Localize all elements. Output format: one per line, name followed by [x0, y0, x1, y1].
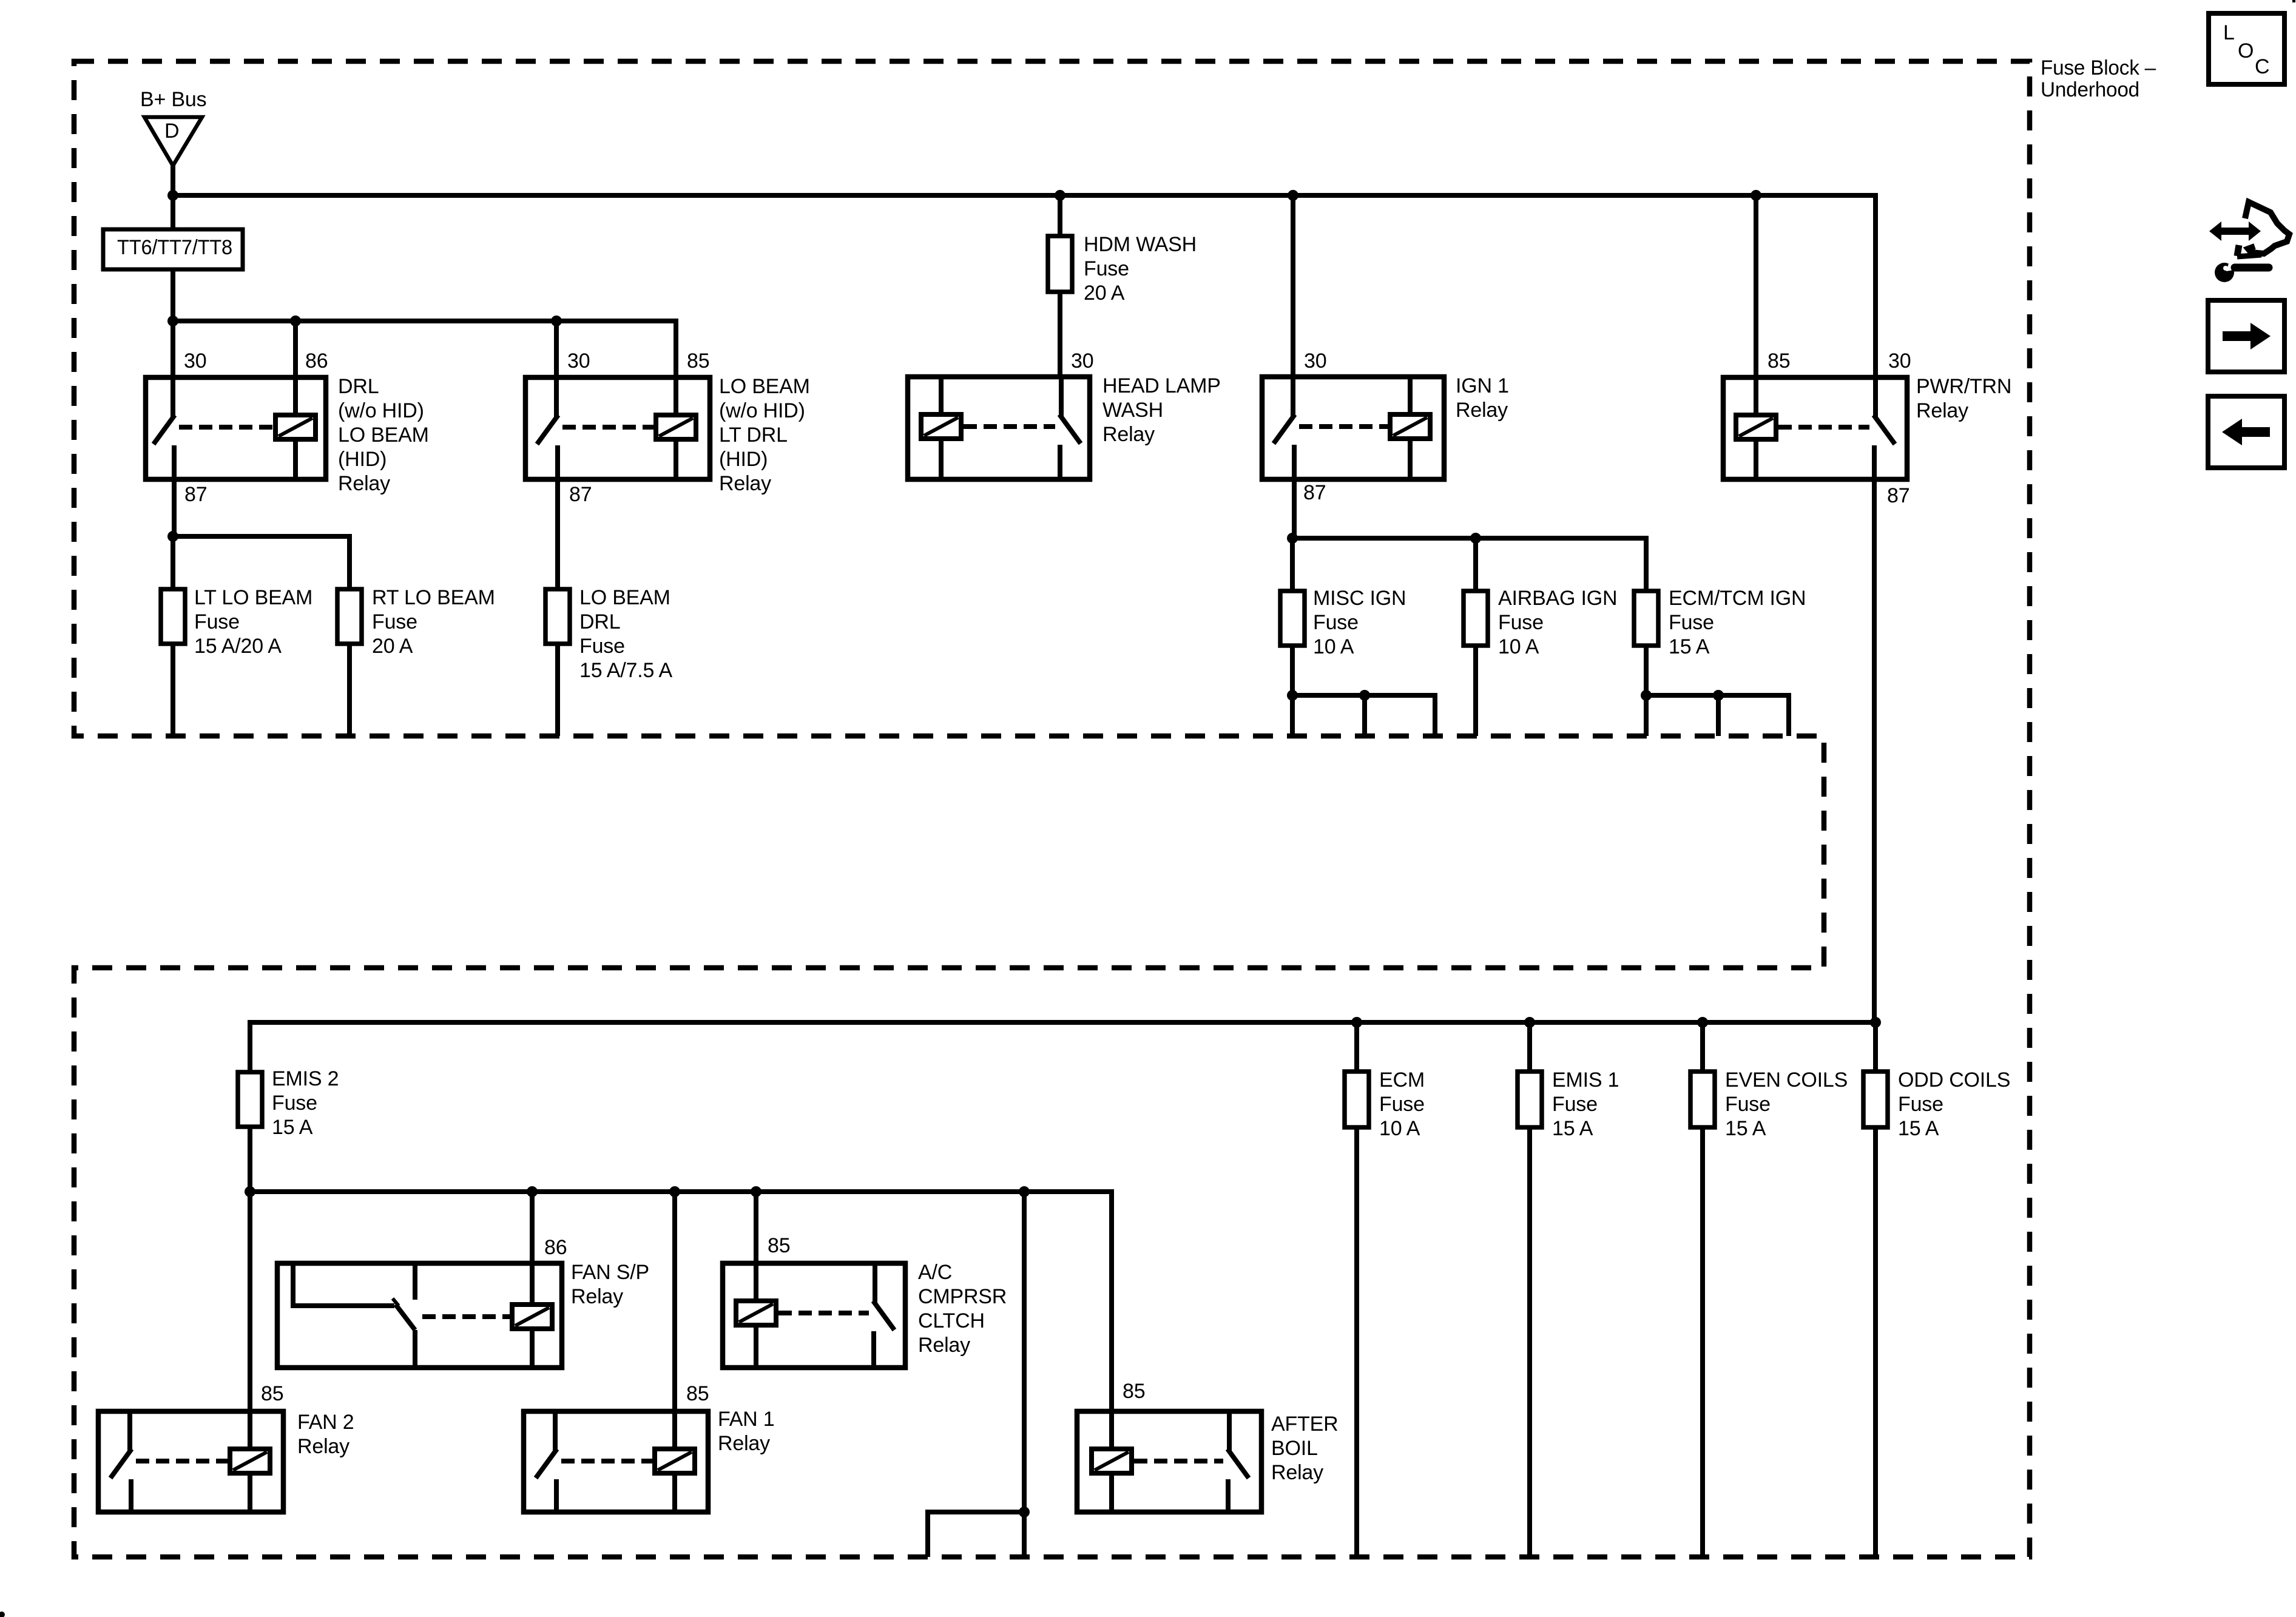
svg-text:DRL: DRL — [579, 610, 620, 633]
svg-text:EMIS 2: EMIS 2 — [272, 1067, 339, 1090]
node junction DRL 86 — [290, 316, 301, 326]
wire MISC IGN drop — [1290, 538, 1295, 591]
fuse ECM — [1345, 1072, 1369, 1127]
relay FAN 1 — [524, 1411, 708, 1512]
wire B+ to bus — [171, 164, 175, 195]
wire lower feed bus — [250, 1022, 1876, 1072]
node junction MISC IGN — [1287, 533, 1298, 544]
svg-text:LO BEAM: LO BEAM — [719, 375, 810, 398]
wire EVEN COILS drop — [1700, 1022, 1705, 1072]
svg-text:Fuse: Fuse — [272, 1092, 317, 1115]
node junction EMIS2/FAN2 — [245, 1186, 255, 1197]
fuse LT LO BEAM — [161, 589, 185, 644]
svg-text:Fuse: Fuse — [579, 635, 625, 658]
wire EMIS2 to relay bus — [248, 1127, 252, 1192]
svg-text:15 A/20 A: 15 A/20 A — [194, 635, 282, 658]
wire ECM/TCM exit stub a — [1644, 695, 1649, 736]
wire IGN1 pin87 down — [1292, 479, 1297, 538]
svg-text:Relay: Relay — [719, 472, 771, 495]
node junction LO BEAM 30 — [551, 316, 562, 326]
svg-text:Relay: Relay — [1456, 399, 1508, 422]
wire exit stub right — [1022, 1512, 1027, 1557]
node junction exit drop — [1019, 1186, 1030, 1197]
svg-text:15 A: 15 A — [1898, 1117, 1939, 1140]
svg-text:Relay: Relay — [338, 472, 390, 495]
svg-text:AFTER: AFTER — [1271, 1413, 1338, 1436]
svg-text:RT LO BEAM: RT LO BEAM — [372, 586, 495, 609]
wire FAN S/P actuator dashes — [422, 1314, 510, 1319]
svg-text:85: 85 — [686, 1382, 709, 1405]
svg-text:AIRBAG IGN: AIRBAG IGN — [1498, 587, 1617, 610]
svg-text:15 A: 15 A — [272, 1116, 313, 1139]
svg-text:87: 87 — [184, 483, 207, 506]
icon wrench — [2215, 263, 2234, 282]
svg-text:85: 85 — [768, 1234, 790, 1257]
node junction AIRBAG IGN — [1470, 533, 1481, 544]
svg-text:FAN 2: FAN 2 — [297, 1411, 354, 1434]
wire ECM drop — [1354, 1022, 1359, 1072]
wire ignition fuse bus — [1292, 538, 1646, 591]
svg-text:CLTCH: CLTCH — [918, 1309, 985, 1332]
wire FAN S/P blade — [396, 1305, 415, 1330]
wire FAN S/P bottom contact — [413, 1330, 417, 1368]
relay HEAD LAMP WASH — [908, 377, 1090, 479]
wire EVEN COILS exit — [1700, 1127, 1705, 1557]
fuse LO BEAM DRL — [545, 589, 570, 644]
svg-text:85: 85 — [687, 349, 709, 373]
svg-text:A/C: A/C — [918, 1261, 952, 1284]
icon harness outline — [2245, 202, 2289, 254]
wire HDM fuse to relay — [1058, 292, 1062, 377]
wire drop to TT box — [171, 195, 175, 231]
svg-text:LO BEAM: LO BEAM — [338, 424, 429, 447]
fuse RT LO BEAM — [337, 589, 362, 644]
wire PWR/TRN pin85 — [1754, 195, 1758, 377]
svg-text:Relay: Relay — [571, 1285, 623, 1308]
wire FAN S/P 87a L — [293, 1263, 394, 1306]
node junction PWR/TRN 85 — [1751, 190, 1761, 201]
svg-text:15 A: 15 A — [1725, 1117, 1766, 1140]
svg-text:DRL: DRL — [338, 375, 379, 398]
node B+ Bus triangle D — [144, 117, 202, 166]
wire FAN S/P top contact — [413, 1263, 417, 1300]
wire exit split horizontal — [928, 1512, 1024, 1557]
wire MISC IGN fuse lower — [1290, 646, 1295, 695]
wire relay bus lower — [250, 1192, 1112, 1411]
svg-text:30: 30 — [1304, 349, 1326, 373]
svg-text:87: 87 — [1887, 484, 1909, 507]
artifact dot bottom left — [0, 1612, 5, 1617]
node junction A/C 85 — [751, 1186, 761, 1197]
svg-text:Relay: Relay — [1271, 1461, 1323, 1484]
svg-text:O: O — [2238, 39, 2254, 62]
svg-text:15 A/7.5 A: 15 A/7.5 A — [579, 659, 673, 682]
svg-text:30: 30 — [1888, 349, 1911, 373]
relay A/C CMPRSR CLTCH — [723, 1263, 905, 1368]
relay FAN 2 — [98, 1411, 283, 1512]
svg-text:30: 30 — [567, 349, 590, 373]
svg-text:Fuse: Fuse — [1669, 611, 1714, 634]
svg-text:10 A: 10 A — [1313, 635, 1354, 658]
wire EMIS1 exit — [1527, 1127, 1532, 1557]
svg-text:15 A: 15 A — [1669, 635, 1710, 658]
wire branch to RT fuse — [173, 536, 349, 589]
wire DRL pin86 — [293, 321, 298, 377]
svg-text:ECM: ECM — [1379, 1068, 1425, 1092]
node junction sub-bus left — [167, 316, 178, 326]
svg-text:LO BEAM: LO BEAM — [579, 586, 670, 609]
fuse EVEN COILS — [1690, 1072, 1715, 1127]
svg-text:Underhood: Underhood — [2041, 78, 2139, 101]
wire LO BEAM pin30 — [554, 321, 559, 377]
wire AIRBAG IGN drop — [1473, 538, 1478, 591]
wire ECM exit — [1354, 1127, 1359, 1557]
wire LT fuse exit — [171, 644, 175, 736]
svg-text:Fuse: Fuse — [1379, 1093, 1425, 1116]
wire exit drop vertical — [1022, 1192, 1027, 1512]
svg-text:Fuse: Fuse — [372, 610, 417, 633]
node junction ECM/TCM exit 1 — [1641, 690, 1652, 701]
svg-text:87: 87 — [1303, 481, 1326, 504]
wire ODD COILS drop — [1873, 1022, 1878, 1072]
node junction MISC exit 1 — [1287, 690, 1298, 701]
relay DRL — [146, 377, 326, 479]
wire to LT fuse — [171, 536, 175, 589]
wire main top bus — [173, 195, 1876, 377]
wire DRL pin30 — [171, 321, 175, 377]
svg-text:Fuse: Fuse — [1898, 1093, 1943, 1116]
svg-text:86: 86 — [544, 1236, 567, 1259]
relay FAN S/P — [277, 1263, 562, 1368]
svg-text:ECM/TCM IGN: ECM/TCM IGN — [1669, 587, 1806, 610]
icon arrow back box — [2208, 396, 2284, 468]
wire FAN2 pin85 — [248, 1192, 252, 1411]
svg-text:D: D — [164, 120, 179, 143]
coil FAN S/P — [530, 1263, 535, 1305]
node junction EVEN COILS fuse — [1697, 1017, 1708, 1028]
wire MISC exit stub b — [1362, 695, 1367, 736]
svg-text:HDM WASH: HDM WASH — [1084, 233, 1197, 256]
svg-text:FAN 1: FAN 1 — [718, 1408, 774, 1431]
wire DRL pin87 down — [172, 479, 177, 536]
svg-text:Relay: Relay — [918, 1334, 970, 1357]
svg-text:Fuse: Fuse — [1498, 611, 1544, 634]
wire ECM/TCM exit stub b — [1716, 695, 1721, 736]
node junction FAN1 85 — [669, 1186, 680, 1197]
fuse EMIS 2 — [238, 1072, 262, 1127]
icon LOC box — [2209, 13, 2284, 84]
svg-text:87: 87 — [569, 483, 592, 506]
relay LO BEAM — [525, 377, 710, 479]
svg-text:Fuse: Fuse — [1084, 257, 1129, 280]
svg-text:Relay: Relay — [718, 1432, 770, 1455]
svg-text:LT LO BEAM: LT LO BEAM — [194, 586, 312, 609]
svg-text:86: 86 — [305, 349, 328, 373]
node junction B+ — [167, 190, 178, 201]
svg-text:85: 85 — [1123, 1380, 1145, 1403]
fuse ODD COILS — [1863, 1072, 1888, 1127]
wire ODD COILS exit — [1873, 1127, 1878, 1557]
node junction FAN S/P 86 — [527, 1186, 538, 1197]
svg-text:WASH: WASH — [1102, 399, 1163, 422]
node junction ECM fuse — [1351, 1017, 1362, 1028]
wire HDM WASH drop — [1058, 195, 1062, 236]
svg-text:(w/o HID): (w/o HID) — [338, 399, 424, 422]
fuse HDM WASH — [1048, 236, 1072, 292]
node junction EMIS1 fuse — [1524, 1017, 1535, 1028]
node junction IGN1 — [1288, 190, 1298, 201]
svg-text:30: 30 — [1071, 349, 1093, 373]
svg-text:BOIL: BOIL — [1271, 1437, 1318, 1460]
svg-text:PWR/TRN: PWR/TRN — [1916, 375, 2011, 398]
node junction HDM WASH — [1055, 190, 1065, 201]
wire EMIS1 drop — [1527, 1022, 1532, 1072]
fuse EMIS 1 — [1518, 1072, 1542, 1127]
svg-text:85: 85 — [1768, 349, 1790, 373]
svg-text:20 A: 20 A — [1084, 282, 1125, 305]
relay PWR/TRN — [1723, 377, 1907, 479]
icon harness double arrow — [2209, 221, 2261, 241]
svg-text:ODD COILS: ODD COILS — [1898, 1068, 2010, 1092]
svg-text:Fuse: Fuse — [1725, 1093, 1771, 1116]
svg-text:EVEN COILS: EVEN COILS — [1725, 1068, 1848, 1092]
icon arrow next box — [2208, 300, 2284, 372]
wire RT fuse exit — [347, 644, 352, 736]
svg-text:C: C — [2255, 55, 2269, 78]
svg-text:Relay: Relay — [297, 1435, 349, 1458]
artifact dot top right — [2292, 0, 2295, 2]
wire MISC exit branch — [1292, 695, 1435, 736]
svg-text:85: 85 — [261, 1382, 283, 1405]
svg-text:EMIS 1: EMIS 1 — [1552, 1068, 1619, 1092]
svg-text:L: L — [2223, 21, 2235, 44]
wire LO BEAM DRL fuse exit — [555, 644, 560, 736]
fuse AIRBAG IGN — [1464, 591, 1488, 646]
node junction 87 branch — [167, 531, 178, 542]
wire TT box to sub-bus — [171, 269, 175, 321]
svg-text:Fuse Block –: Fuse Block – — [2041, 56, 2156, 79]
svg-text:Fuse: Fuse — [194, 610, 240, 633]
svg-text:FAN S/P: FAN S/P — [571, 1261, 649, 1284]
wire IGN1 pin30 — [1291, 195, 1295, 377]
wire ECM/TCM exit branch — [1646, 695, 1789, 736]
svg-text:20 A: 20 A — [372, 635, 413, 658]
fuse MISC IGN — [1280, 591, 1305, 646]
wire MISC exit stub a — [1290, 695, 1295, 736]
svg-text:Relay: Relay — [1916, 399, 1968, 422]
wire LO BEAM pin87 down — [555, 479, 560, 589]
wire sub-bus — [173, 321, 676, 377]
svg-text:MISC IGN: MISC IGN — [1313, 587, 1406, 610]
node junction MISC exit 2 — [1359, 690, 1370, 701]
svg-text:(HID): (HID) — [338, 448, 387, 471]
svg-text:10 A: 10 A — [1379, 1117, 1420, 1140]
node junction exit split — [1019, 1507, 1030, 1517]
wire AIRBAG IGN exit — [1473, 646, 1478, 736]
svg-text:HEAD LAMP: HEAD LAMP — [1102, 374, 1221, 397]
relay AFTER BOIL — [1077, 1411, 1261, 1512]
svg-text:CMPRSR: CMPRSR — [918, 1285, 1007, 1308]
svg-text:Fuse: Fuse — [1313, 611, 1359, 634]
fuse block underhood dashed boundary — [74, 61, 2030, 1557]
svg-text:Relay: Relay — [1102, 423, 1155, 446]
wire ECM/TCM fuse lower — [1644, 646, 1649, 695]
icon harness tab — [2237, 245, 2239, 256]
wire FAN S/P pin86 — [530, 1192, 535, 1263]
svg-text:TT6/TT7/TT8: TT6/TT7/TT8 — [117, 236, 232, 259]
node junction ECM/TCM exit 2 — [1713, 690, 1724, 701]
fuse ECM/TCM IGN — [1634, 591, 1658, 646]
svg-text:30: 30 — [184, 349, 206, 373]
svg-text:(w/o HID): (w/o HID) — [719, 399, 805, 422]
svg-text:10 A: 10 A — [1498, 635, 1539, 658]
svg-text:IGN 1: IGN 1 — [1456, 374, 1509, 397]
wire A/C pin85 — [754, 1192, 758, 1263]
relay IGN 1 — [1262, 377, 1444, 479]
node junction ODD COILS fuse — [1870, 1017, 1881, 1028]
node TT6/TT7/TT8 box — [103, 229, 243, 269]
svg-text:LT DRL: LT DRL — [719, 424, 788, 447]
svg-text:B+ Bus: B+ Bus — [140, 88, 206, 111]
svg-text:(HID): (HID) — [719, 448, 768, 471]
wire PWR/TRN 87 to lower bus — [1872, 479, 1877, 1022]
svg-text:Fuse: Fuse — [1552, 1093, 1598, 1116]
wire FAN1 pin85 — [672, 1192, 677, 1411]
svg-text:15 A: 15 A — [1552, 1117, 1593, 1140]
